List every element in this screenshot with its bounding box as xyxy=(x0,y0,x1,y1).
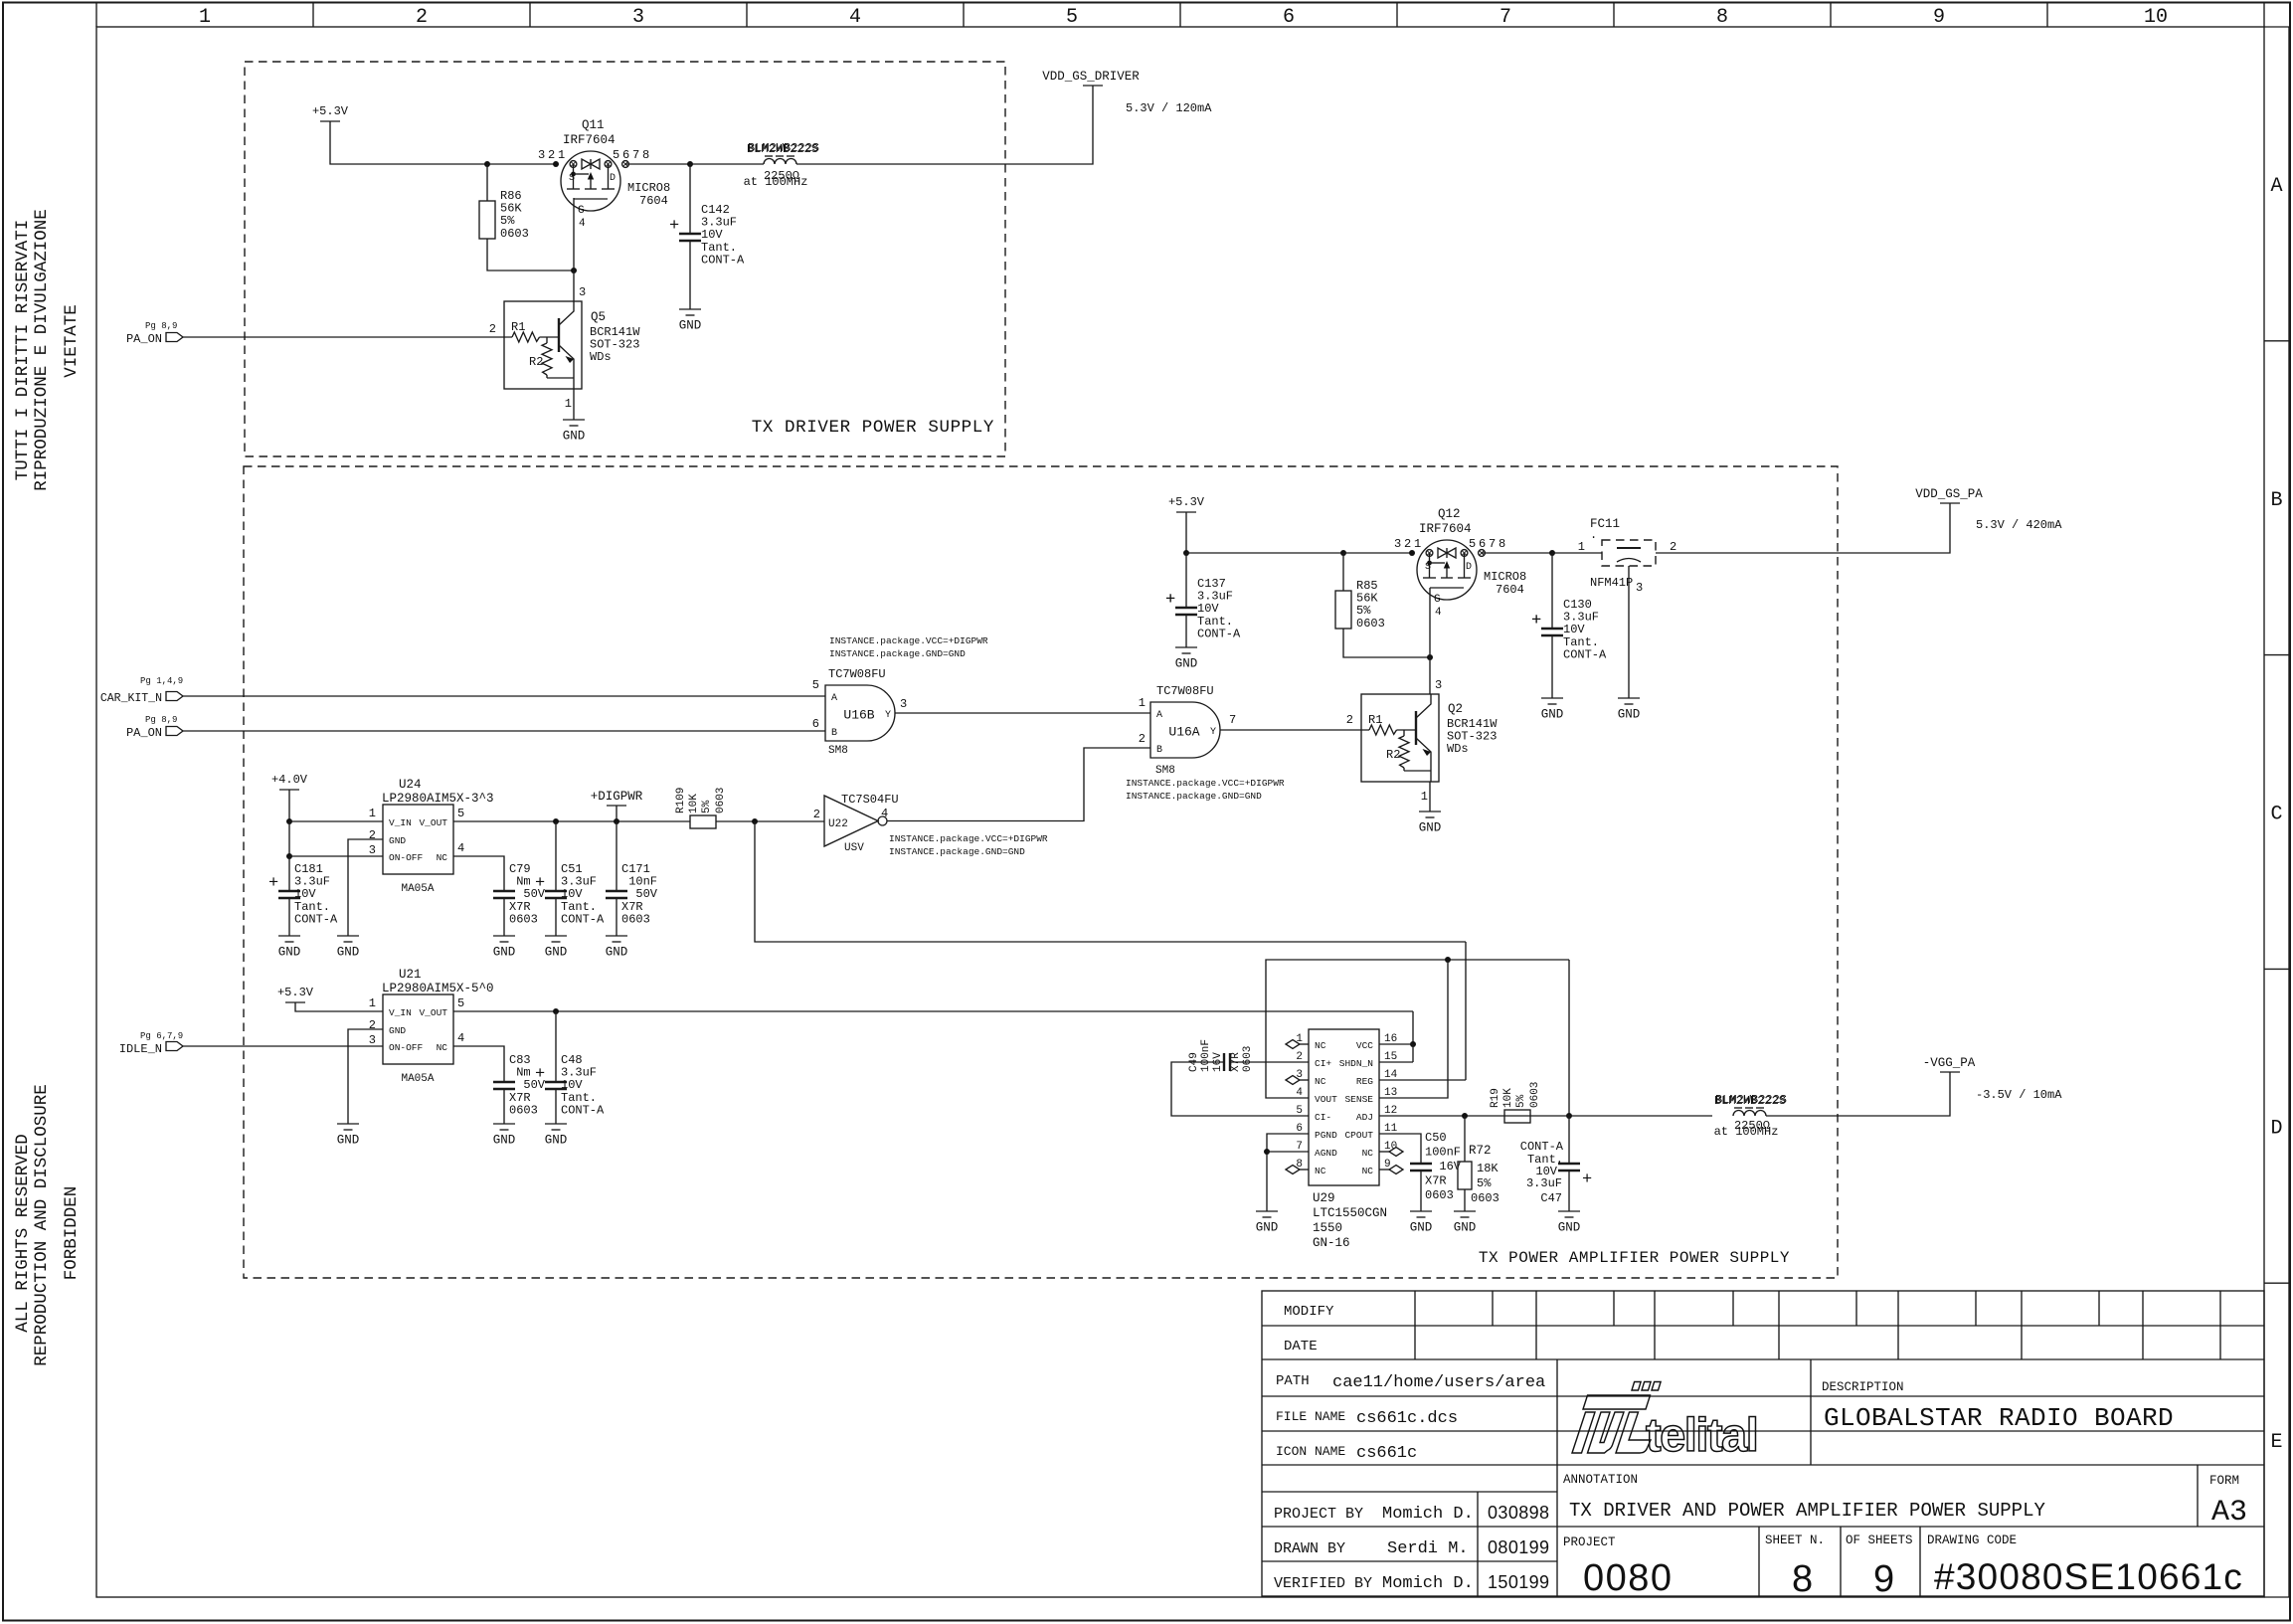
wire U16A Y to Q2 base xyxy=(1220,729,1369,731)
svg-text:MICRO8: MICRO8 xyxy=(627,181,670,195)
svg-text:GND: GND xyxy=(545,1134,568,1148)
svg-text:7604: 7604 xyxy=(639,194,668,208)
svg-text:MICRO8: MICRO8 xyxy=(1484,570,1526,584)
svg-text:7: 7 xyxy=(1499,6,1511,29)
svg-text:ADJ: ADJ xyxy=(1356,1112,1373,1123)
wire Q12 gate down to Q2 xyxy=(1429,588,1431,694)
svg-text:9: 9 xyxy=(1933,6,1945,29)
svg-text:10K: 10K xyxy=(688,794,700,813)
svg-text:B: B xyxy=(2270,489,2282,512)
svg-text:2: 2 xyxy=(416,6,428,29)
node junction R86 tap xyxy=(484,161,490,167)
svg-text:R2: R2 xyxy=(529,355,543,369)
wire AGND stub xyxy=(1267,1151,1309,1153)
svg-text:R2: R2 xyxy=(1386,748,1400,762)
dashed box TX DRIVER POWER SUPPLY xyxy=(245,62,1005,456)
svg-text:+5.3V: +5.3V xyxy=(1168,495,1205,509)
svg-text:+: + xyxy=(535,1065,545,1084)
svg-text:7604: 7604 xyxy=(1496,583,1524,597)
svg-text:GND: GND xyxy=(1410,1221,1433,1235)
svg-text:CI-: CI- xyxy=(1315,1112,1331,1123)
svg-text:ICON NAME: ICON NAME xyxy=(1276,1444,1345,1459)
svg-text:VERIFIED BY: VERIFIED BY xyxy=(1274,1575,1372,1592)
terminal VDD_GS_PA xyxy=(1940,502,1960,504)
svg-text:C47: C47 xyxy=(1540,1191,1562,1205)
svg-text:3: 3 xyxy=(900,697,907,711)
svg-text:5 6 7 8: 5 6 7 8 xyxy=(1469,537,1505,551)
svg-text:GND: GND xyxy=(1419,821,1442,835)
svg-text:TX POWER AMPLIFIER POWER SUPPL: TX POWER AMPLIFIER POWER SUPPLY xyxy=(1479,1249,1790,1267)
wire PGND to ground xyxy=(1267,1134,1309,1211)
svg-text:13: 13 xyxy=(1384,1087,1397,1099)
svg-text:VDD_GS_DRIVER: VDD_GS_DRIVER xyxy=(1042,70,1140,84)
AND gate U16A TC7W08FU xyxy=(1150,702,1220,758)
svg-text:G: G xyxy=(578,205,585,217)
wire C130 node to FC11 xyxy=(1552,552,1602,554)
svg-text:12: 12 xyxy=(1384,1105,1397,1117)
terminal VDD_GS_DRIVER xyxy=(1083,85,1103,87)
svg-text:IDLE_N: IDLE_N xyxy=(119,1042,162,1056)
svg-text:B: B xyxy=(831,728,837,739)
svg-text:LP2980AIM5X-3^3: LP2980AIM5X-3^3 xyxy=(382,792,494,806)
inverter U22 TC7S04FU xyxy=(824,796,878,846)
svg-text:PA_ON: PA_ON xyxy=(126,332,162,346)
wire VCC to SHDN_N xyxy=(1412,1044,1414,1062)
svg-text:TC7W08FU: TC7W08FU xyxy=(828,667,886,681)
svg-text:Pg 1,4,9: Pg 1,4,9 xyxy=(140,676,183,686)
svg-text:6: 6 xyxy=(1296,1123,1303,1135)
svg-text:+: + xyxy=(669,217,679,236)
svg-text:A3: A3 xyxy=(2211,1496,2247,1530)
svg-text:GND: GND xyxy=(1454,1221,1477,1235)
svg-text:X7R: X7R xyxy=(1230,1052,1242,1072)
svg-text:ON-OFF: ON-OFF xyxy=(389,852,424,863)
svg-text:2: 2 xyxy=(1139,732,1146,746)
wire PA_ON to Q5 base xyxy=(183,336,512,338)
wire R85 to gate net xyxy=(1343,629,1430,657)
svg-text:+: + xyxy=(1531,612,1541,631)
svg-text:18K: 18K xyxy=(1477,1162,1499,1175)
svg-text:CONT-A: CONT-A xyxy=(1520,1140,1564,1154)
svg-text:TUTTI I DIRITTI RISERVATI: TUTTI I DIRITTI RISERVATI xyxy=(13,220,33,481)
svg-text:0603: 0603 xyxy=(1471,1191,1499,1205)
ground below Q2 xyxy=(1429,782,1431,812)
svg-text:NFM41P: NFM41P xyxy=(1590,576,1633,590)
svg-text:U21: U21 xyxy=(399,968,422,982)
svg-text:V_OUT: V_OUT xyxy=(419,1007,447,1018)
svg-text:2: 2 xyxy=(369,1018,376,1032)
transistor Q5 BCR141W with built-in R1 R2 xyxy=(504,301,582,389)
svg-text:.: . xyxy=(1590,528,1597,542)
wire rail to Q11 xyxy=(487,163,556,165)
svg-text:0603: 0603 xyxy=(509,912,538,926)
capacitor C142 3.3uF tantalum xyxy=(689,164,691,234)
resistor R2 xyxy=(1403,730,1405,736)
svg-text:1: 1 xyxy=(1578,540,1585,554)
svg-text:WDs: WDs xyxy=(1447,742,1469,756)
capacitor C47 3.3uF tantalum reversed xyxy=(1568,1116,1570,1164)
svg-text:VDD_GS_PA: VDD_GS_PA xyxy=(1915,487,1983,501)
svg-text:telital: telital xyxy=(1646,1408,1757,1461)
capacitor C83 ceramic xyxy=(493,1081,515,1083)
svg-text:AGND: AGND xyxy=(1315,1148,1337,1159)
svg-text:4: 4 xyxy=(1296,1087,1303,1099)
svg-text:16V: 16V xyxy=(1425,1160,1462,1173)
wire junction down to REG line xyxy=(755,821,1466,942)
svg-text:SM8: SM8 xyxy=(828,745,848,757)
svg-text:BLM2HB222S: BLM2HB222S xyxy=(1714,1094,1786,1108)
wire Q11 gate down to Q5 xyxy=(573,198,575,301)
svg-text:ANNOTATION: ANNOTATION xyxy=(1563,1473,1638,1487)
right letter band xyxy=(2264,26,2289,28)
svg-text:1: 1 xyxy=(565,397,572,411)
svg-text:9: 9 xyxy=(1873,1558,1894,1600)
wire Q12 drain to C130 node xyxy=(1482,552,1552,554)
svg-text:1550: 1550 xyxy=(1313,1221,1342,1235)
svg-text:IRF7604: IRF7604 xyxy=(563,133,616,147)
svg-text:VCC: VCC xyxy=(1356,1040,1373,1051)
modify row cells xyxy=(1414,1291,1416,1326)
svg-text:USV: USV xyxy=(844,842,864,854)
svg-text:5: 5 xyxy=(1296,1105,1303,1117)
svg-text:V_IN: V_IN xyxy=(389,1007,412,1018)
wire FC11 to VDD_GS_PA xyxy=(1656,503,1950,553)
svg-text:INSTANCE.package.GND=GND: INSTANCE.package.GND=GND xyxy=(829,648,966,659)
svg-text:3 2 1: 3 2 1 xyxy=(1394,537,1421,551)
ground below Q5 xyxy=(573,389,575,420)
capacitor C50 100nF xyxy=(1410,1163,1432,1165)
wire U24 NC to C79 xyxy=(453,856,504,891)
node +DIGPWR tap xyxy=(614,818,619,824)
svg-text:0603: 0603 xyxy=(621,912,650,926)
svg-text:1: 1 xyxy=(1421,790,1428,804)
svg-text:GND: GND xyxy=(493,946,516,960)
wire to U24 ON-OFF xyxy=(289,855,383,857)
capacitor C181 3.3uF tantalum xyxy=(288,856,290,891)
svg-text:G: G xyxy=(1434,594,1441,606)
svg-text:6: 6 xyxy=(1283,6,1295,29)
svg-text:S: S xyxy=(1425,562,1431,573)
svg-text:BLM2HB222S: BLM2HB222S xyxy=(747,142,818,156)
svg-text:C50: C50 xyxy=(1425,1131,1447,1145)
IC U29 LTC1550CGN charge pump xyxy=(1309,1029,1379,1185)
svg-text:3 2 1: 3 2 1 xyxy=(538,148,565,162)
svg-text:GND: GND xyxy=(679,319,702,333)
svg-text:V_IN: V_IN xyxy=(389,817,412,828)
node VCC junction xyxy=(1410,1041,1416,1047)
svg-text:5%: 5% xyxy=(1515,1094,1527,1108)
svg-text:4: 4 xyxy=(1435,607,1442,619)
svg-text:2: 2 xyxy=(1346,713,1353,727)
svg-text:MODIFY: MODIFY xyxy=(1284,1304,1334,1320)
capacitor C51 3.3uF tantalum xyxy=(555,821,557,891)
resistor R2 xyxy=(546,337,548,343)
svg-text:2: 2 xyxy=(369,828,376,842)
NC diamond pin9 xyxy=(1379,1169,1389,1171)
resistor R1 xyxy=(1369,725,1397,735)
svg-text:5: 5 xyxy=(1066,6,1078,29)
wire Q11 drain to C142 node xyxy=(625,163,690,165)
svg-text:FILE NAME: FILE NAME xyxy=(1276,1409,1345,1424)
capacitor C130 3.3uF tantalum xyxy=(1551,553,1553,629)
svg-text:+: + xyxy=(268,874,278,893)
svg-text:INSTANCE.package.GND=GND: INSTANCE.package.GND=GND xyxy=(889,846,1025,857)
svg-text:NC: NC xyxy=(1362,1148,1374,1159)
node V_IN tap xyxy=(286,818,292,824)
svg-text:Y: Y xyxy=(1210,727,1216,738)
node R85 tap xyxy=(1340,550,1346,556)
svg-text:PROJECT: PROJECT xyxy=(1563,1535,1616,1549)
title block frame xyxy=(1262,1291,2264,1596)
wire U24 V_OUT rail xyxy=(453,820,690,822)
svg-text:LP2980AIM5X-5^0: LP2980AIM5X-5^0 xyxy=(382,982,494,995)
svg-text:5: 5 xyxy=(457,807,464,820)
resistor R85 xyxy=(1342,553,1344,591)
node C142 tap xyxy=(687,161,693,167)
svg-text:B: B xyxy=(1156,745,1162,756)
svg-text:5: 5 xyxy=(457,996,464,1010)
svg-text:TC7S04FU: TC7S04FU xyxy=(841,793,899,807)
svg-text:+: + xyxy=(1165,591,1175,610)
svg-text:Q12: Q12 xyxy=(1438,507,1461,521)
svg-text:SHDN_N: SHDN_N xyxy=(1339,1058,1373,1069)
svg-text:2: 2 xyxy=(1670,540,1676,554)
wire ADJ line xyxy=(1379,1115,1712,1117)
svg-text:CAR_KIT_N: CAR_KIT_N xyxy=(100,692,162,705)
svg-text:cs661c: cs661c xyxy=(1356,1444,1417,1463)
svg-text:1: 1 xyxy=(1139,696,1146,710)
node R109 output junction xyxy=(752,818,758,824)
svg-text:REPRODUCTION AND DISCLOSURE: REPRODUCTION AND DISCLOSURE xyxy=(32,1084,52,1366)
svg-text:11: 11 xyxy=(1384,1123,1398,1135)
svg-text:V_OUT: V_OUT xyxy=(419,817,447,828)
node C51 tap xyxy=(553,818,559,824)
svg-text:D: D xyxy=(610,173,616,184)
ferrite bead BLM2WB222S (PA) xyxy=(1734,1107,1742,1109)
svg-text:LTC1550CGN: LTC1550CGN xyxy=(1313,1206,1387,1220)
wire R109 to U22 xyxy=(716,820,824,822)
svg-text:cs661c.dcs: cs661c.dcs xyxy=(1356,1409,1458,1428)
svg-text:GND: GND xyxy=(1541,708,1564,722)
wire R86 to gate net xyxy=(487,239,574,271)
regulator U24 LP2980AIM5X-3^3 xyxy=(383,805,453,874)
svg-text:7: 7 xyxy=(1296,1141,1303,1153)
capacitor C48 3.3uF tantalum xyxy=(555,1011,557,1082)
svg-text:X7R: X7R xyxy=(1425,1174,1447,1188)
svg-text:NC: NC xyxy=(1315,1076,1326,1087)
svg-text:7: 7 xyxy=(1229,713,1236,727)
svg-text:16V: 16V xyxy=(1212,1052,1224,1072)
svg-text:0603: 0603 xyxy=(1242,1046,1254,1072)
svg-text:0080: 0080 xyxy=(1583,1557,1674,1599)
svg-text:DESCRIPTION: DESCRIPTION xyxy=(1822,1380,1904,1394)
wire +4.0V down to ON-OFF xyxy=(288,821,290,856)
svg-text:6: 6 xyxy=(812,717,819,731)
svg-text:5 6 7 8: 5 6 7 8 xyxy=(613,148,649,162)
svg-text:+: + xyxy=(535,874,545,893)
svg-text:15: 15 xyxy=(1384,1051,1397,1063)
svg-text:5%: 5% xyxy=(701,800,713,813)
wire U21 NC to C83 xyxy=(453,1046,504,1082)
NC diamond pin3 xyxy=(1300,1079,1309,1081)
capacitor C171 10nF ceramic xyxy=(616,821,617,891)
svg-text:GND: GND xyxy=(545,946,568,960)
wire VOUT net down to ADJ line xyxy=(1568,960,1570,1116)
svg-text:GN-16: GN-16 xyxy=(1313,1236,1350,1250)
svg-text:CONT-A: CONT-A xyxy=(561,912,605,926)
svg-text:GND: GND xyxy=(606,946,628,960)
svg-text:3: 3 xyxy=(1636,581,1643,595)
svg-text:CPOUT: CPOUT xyxy=(1344,1130,1373,1141)
svg-text:D: D xyxy=(1466,562,1472,573)
svg-text:U24: U24 xyxy=(399,778,422,792)
svg-text:Pg 8,9: Pg 8,9 xyxy=(145,321,177,331)
svg-text:+DIGPWR: +DIGPWR xyxy=(591,790,643,804)
node C48 tap xyxy=(553,1008,559,1014)
svg-text:NC: NC xyxy=(1315,1040,1326,1051)
svg-text:U16A: U16A xyxy=(1168,725,1199,740)
node ON-OFF tap xyxy=(286,853,292,859)
wire REG riser xyxy=(1465,942,1467,1080)
wire CPOUT to C50 xyxy=(1379,1134,1421,1164)
svg-text:VIETATE: VIETATE xyxy=(62,304,82,378)
svg-text:FORBIDDEN: FORBIDDEN xyxy=(62,1186,82,1281)
node R72 tap xyxy=(1462,1113,1468,1119)
svg-text:+4.0V: +4.0V xyxy=(271,773,308,787)
svg-text:REG: REG xyxy=(1356,1076,1373,1087)
svg-text:5.3V / 120mA: 5.3V / 120mA xyxy=(1126,101,1212,115)
svg-text:VOUT: VOUT xyxy=(1315,1094,1337,1105)
svg-text:Momich D.: Momich D. xyxy=(1382,1574,1474,1593)
wire U29 VCC stub xyxy=(1379,1043,1413,1045)
svg-text:3.3uF: 3.3uF xyxy=(1526,1176,1562,1190)
svg-text:R1: R1 xyxy=(511,320,525,334)
svg-text:PA_ON: PA_ON xyxy=(126,726,162,740)
svg-text:TX DRIVER POWER SUPPLY: TX DRIVER POWER SUPPLY xyxy=(752,418,994,438)
svg-text:R72: R72 xyxy=(1469,1144,1492,1158)
svg-text:INSTANCE.package.GND=GND: INSTANCE.package.GND=GND xyxy=(1126,791,1262,802)
svg-text:Q2: Q2 xyxy=(1448,702,1463,716)
svg-text:CI+: CI+ xyxy=(1315,1058,1331,1069)
svg-text:DATE: DATE xyxy=(1284,1339,1318,1354)
svg-text:C49: C49 xyxy=(1188,1052,1200,1072)
svg-text:8: 8 xyxy=(1716,6,1728,29)
svg-text:RIPRODUZIONE E DIVULGAZIONE: RIPRODUZIONE E DIVULGAZIONE xyxy=(32,209,52,491)
svg-text:+: + xyxy=(1582,1171,1592,1189)
svg-text:D: D xyxy=(2270,1117,2282,1140)
svg-text:4: 4 xyxy=(849,6,861,29)
svg-text:Momich D.: Momich D. xyxy=(1382,1505,1474,1524)
svg-text:NC: NC xyxy=(1315,1166,1326,1176)
svg-text:NC: NC xyxy=(437,1042,448,1053)
top ruler band xyxy=(95,3,97,28)
transistor Q11 MOSFET IRF7604 xyxy=(538,148,670,230)
svg-text:TC7W08FU: TC7W08FU xyxy=(1156,684,1214,698)
wire CAR_KIT_N to U16B pin A xyxy=(183,695,825,697)
svg-text:150199: 150199 xyxy=(1488,1572,1549,1592)
svg-text:ON-OFF: ON-OFF xyxy=(389,1042,424,1053)
svg-text:at 100MHz: at 100MHz xyxy=(744,175,808,189)
svg-text:R1: R1 xyxy=(1368,713,1382,727)
svg-text:cae11/home/users/area: cae11/home/users/area xyxy=(1332,1373,1545,1392)
svg-text:GND: GND xyxy=(337,946,360,960)
svg-text:R19: R19 xyxy=(1490,1088,1501,1108)
wire U29 REG stub xyxy=(1379,1079,1466,1081)
svg-text:PATH: PATH xyxy=(1276,1373,1310,1389)
svg-text:1: 1 xyxy=(369,807,376,820)
svg-text:NC: NC xyxy=(437,852,448,863)
svg-text:Q5: Q5 xyxy=(591,310,606,324)
svg-text:MA05A: MA05A xyxy=(401,1073,434,1085)
svg-text:GND: GND xyxy=(493,1134,516,1148)
svg-text:GND: GND xyxy=(1175,657,1198,671)
svg-text:2: 2 xyxy=(813,808,820,821)
svg-text:100nF: 100nF xyxy=(1425,1146,1461,1160)
wire U22 out to U16A pin B xyxy=(887,748,1150,821)
svg-text:E: E xyxy=(2270,1431,2282,1454)
svg-text:A: A xyxy=(1156,710,1162,721)
svg-text:0603: 0603 xyxy=(1356,617,1385,631)
svg-text:3: 3 xyxy=(579,285,586,299)
svg-text:4: 4 xyxy=(881,807,888,820)
svg-text:GND: GND xyxy=(1256,1221,1279,1235)
svg-text:100nF: 100nF xyxy=(1200,1039,1212,1072)
svg-text:Q11: Q11 xyxy=(582,118,605,132)
NC diamond pin1 xyxy=(1300,1043,1309,1045)
svg-text:CONT-A: CONT-A xyxy=(1197,627,1241,640)
regulator U21 LP2980AIM5X-5^0 xyxy=(383,994,453,1064)
svg-text:GND: GND xyxy=(389,835,406,846)
svg-text:GND: GND xyxy=(278,946,301,960)
svg-text:+5.3V: +5.3V xyxy=(277,986,314,999)
svg-text:TX DRIVER AND POWER AMPLIFIER: TX DRIVER AND POWER AMPLIFIER POWER SUPP… xyxy=(1569,1500,2045,1522)
wire +4.0V to U24 V_IN xyxy=(289,820,383,822)
svg-text:CONT-A: CONT-A xyxy=(561,1103,605,1117)
svg-text:4: 4 xyxy=(457,1031,464,1045)
node ADJ junction right xyxy=(1566,1113,1572,1119)
svg-text:NC: NC xyxy=(1362,1166,1374,1176)
svg-text:-VGG_PA: -VGG_PA xyxy=(1923,1056,1976,1070)
date row cells xyxy=(1414,1326,1416,1359)
wire U21 V_OUT +5V rail xyxy=(453,1010,1413,1012)
svg-text:-3.5V / 10mA: -3.5V / 10mA xyxy=(1976,1088,2062,1102)
wire bead to VDD_GS_DRIVER xyxy=(796,86,1093,164)
transistor Q2 BCR141W with built-in R1 R2 xyxy=(1361,694,1439,782)
svg-text:DRAWING CODE: DRAWING CODE xyxy=(1927,1534,2017,1547)
svg-text:ALL RIGHTS RESERVED: ALL RIGHTS RESERVED xyxy=(13,1134,33,1333)
dashed box TX POWER AMPLIFIER POWER SUPPLY xyxy=(244,466,1838,1278)
svg-text:FORM: FORM xyxy=(2209,1474,2239,1488)
wire U29 SHDN_N stub xyxy=(1379,1061,1413,1063)
svg-text:10: 10 xyxy=(2144,6,2168,29)
svg-text:4: 4 xyxy=(457,841,464,855)
svg-text:1: 1 xyxy=(369,996,376,1010)
node SENSE junction on VOUT net xyxy=(1445,957,1451,963)
terminal -VGG_PA xyxy=(1940,1071,1960,1073)
svg-text:INSTANCE.package.VCC=+DIGPWR: INSTANCE.package.VCC=+DIGPWR xyxy=(889,833,1048,844)
svg-text:SHEET N.: SHEET N. xyxy=(1765,1534,1825,1547)
svg-text:1: 1 xyxy=(199,6,211,29)
svg-text:WDs: WDs xyxy=(590,350,612,364)
svg-text:GND: GND xyxy=(1618,708,1641,722)
svg-text:GND: GND xyxy=(1558,1221,1581,1235)
svg-text:16: 16 xyxy=(1384,1033,1397,1045)
wire C142 node to bead xyxy=(690,163,764,165)
svg-text:GLOBALSTAR RADIO BOARD: GLOBALSTAR RADIO BOARD xyxy=(1824,1403,2174,1433)
svg-text:at 100MHz: at 100MHz xyxy=(1714,1125,1779,1139)
svg-text:PROJECT BY: PROJECT BY xyxy=(1274,1506,1363,1523)
svg-text:OF SHEETS: OF SHEETS xyxy=(1846,1534,1913,1547)
